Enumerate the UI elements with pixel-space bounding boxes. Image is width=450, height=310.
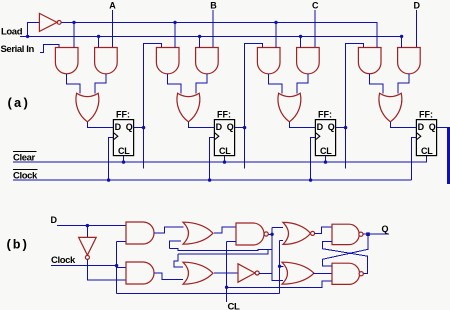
svg-text:FF:: FF: (116, 109, 130, 119)
inverter U3 bubble (255, 271, 259, 275)
node Load branch stage3 (299, 35, 302, 38)
wire or-out to D FF3 (289, 122, 315, 128)
wire G5 out stub (268, 233, 272, 235)
svg-text:Q: Q (328, 122, 335, 132)
node Clear branch stage2 (223, 160, 226, 163)
wire load-and out stage3 (297, 74, 308, 94)
and gate load stage4 (398, 48, 421, 74)
wire G3 out (214, 227, 236, 233)
wire Q feed stage4 (346, 43, 364, 168)
wire Serial In (40, 45, 59, 53)
clock triangle FF3 (316, 133, 320, 140)
node Q FF1 (142, 126, 145, 129)
wire G1 out (154, 227, 183, 233)
node D branch (86, 224, 89, 227)
wire Load to load-and stage1 (98, 36, 100, 47)
wire Load to load-and stage2 (199, 36, 201, 47)
wire G4 out (214, 272, 238, 274)
node Q FF3 (344, 126, 347, 129)
svg-text:D: D (414, 1, 421, 11)
node ClockB to G7 (278, 265, 281, 268)
flip-flop FF1 box (113, 120, 133, 156)
and gate load stage3 (297, 48, 320, 74)
svg-text:Q: Q (126, 122, 133, 132)
wire or-out to D FF1 (87, 122, 113, 128)
wire Q out b (363, 233, 389, 235)
wire Load to load-and stage3 (300, 36, 302, 47)
clock triangle FF1 (114, 133, 118, 140)
wire load-and out stage2 (196, 74, 207, 94)
svg-text:Q: Q (382, 224, 389, 234)
wire Q out FF2 (235, 127, 245, 129)
svg-text:FF:: FF: (318, 109, 332, 119)
svg-text:Serial In: Serial In (1, 44, 35, 55)
or gate stage4 (379, 93, 402, 122)
svg-text:Clock: Clock (51, 255, 76, 266)
wire Clear rail (13, 156, 427, 163)
and gate shift stage1 (55, 48, 78, 74)
svg-text:CL: CL (219, 146, 231, 156)
wire ClockB to G6 (280, 240, 283, 242)
svg-text:FF:: FF: (419, 109, 433, 119)
and gate load stage1 (95, 48, 118, 74)
wire D to inverter (86, 226, 88, 238)
inverter U2 bubble (85, 255, 89, 259)
or gate stage3 (278, 93, 301, 122)
wire Q feed stage2 (144, 43, 162, 168)
flip-flop FF2 box (214, 120, 234, 156)
nand gate G9 (332, 263, 360, 284)
and gate shift stage2 (156, 48, 179, 74)
wire Load-not to shift-and stage3 (275, 22, 277, 47)
node Q FF2 (243, 126, 246, 129)
nand gate G5 (236, 223, 264, 245)
svg-text:CL: CL (421, 146, 433, 156)
svg-text:Q: Q (227, 122, 234, 132)
wire master feedback S1 (169, 249, 272, 251)
nand G5 bubble (264, 232, 268, 236)
wire G7 out (313, 272, 332, 274)
and gate G1 (126, 222, 154, 244)
clock triangle FF2 (215, 133, 219, 140)
wire load-and out stage1 (95, 74, 106, 94)
wire or-out to D FF2 (188, 122, 214, 128)
wire D input (57, 225, 126, 227)
svg-text:D: D (51, 215, 58, 225)
svg-text:CL: CL (118, 146, 130, 156)
or gate G7 (282, 262, 314, 284)
node Load branch stage1 (97, 35, 100, 38)
nand G9 bubble (359, 272, 363, 276)
wire clear to FF1 (123, 156, 125, 163)
svg-text:B: B (210, 1, 217, 11)
wire shift-and out stage2 (168, 74, 182, 94)
wire clock to FF2 (210, 138, 215, 181)
svg-text:FF:: FF: (217, 109, 231, 119)
inverter U1 (Load) (39, 13, 57, 31)
and gate shift stage3 (257, 48, 280, 74)
wire U3 out (259, 273, 272, 275)
wire Clock input (51, 265, 117, 267)
nand gate G8 (332, 224, 359, 244)
node Load-inv junction (26, 35, 29, 38)
wire Clock lower run (117, 293, 280, 295)
node Clock branch b (115, 264, 118, 267)
wire data C drop (314, 10, 316, 48)
flip-flop FF4 box (416, 120, 436, 156)
node Clock branch stage1 (107, 178, 110, 181)
wire clock to FF1 (109, 138, 114, 181)
wire ClockB to G7 (280, 265, 284, 267)
inverter U1 bubble (57, 21, 61, 25)
svg-text:C: C (312, 1, 319, 11)
svg-text:D: D (115, 122, 122, 132)
wire master feedback S2 (178, 249, 268, 254)
wire Clock vertical b (116, 241, 118, 293)
nand G8 bubble (359, 232, 363, 236)
wire Load-not to shift-and stage1 (73, 22, 75, 47)
node Load-not branch stage2 (173, 21, 176, 24)
wire CL to G5 (227, 240, 236, 242)
overline Clock (13, 168, 37, 170)
wire Load-not rail (61, 22, 377, 47)
nor gate G6 (283, 222, 311, 244)
inverter U2 (D) (79, 237, 97, 255)
nor G6 bubble (311, 231, 315, 235)
wire clock to FF3 (311, 138, 316, 181)
svg-text:D: D (317, 122, 324, 132)
wire Load to load-and stage4 (401, 36, 403, 47)
wire G3 feedback in (169, 241, 181, 249)
wire Load-not to shift-and stage4 (376, 22, 378, 47)
wire master vertical node (271, 227, 273, 273)
inverter U3 (238, 264, 255, 282)
wire shift-and out stage3 (269, 74, 283, 94)
svg-text:CL: CL (320, 146, 332, 156)
wire Load rail (20, 36, 402, 47)
svg-text:A: A (109, 1, 116, 11)
wire Q out FF1 (134, 127, 144, 129)
overline Clear (13, 150, 37, 152)
svg-text:Load: Load (1, 27, 23, 38)
wire slave cross G9-to-G8 (322, 241, 367, 273)
or gate stage2 (177, 93, 200, 122)
and gate load stage2 (196, 48, 219, 74)
wire slave cross Q-to-G9 (322, 234, 368, 266)
wire Load-not to shift-and stage2 (174, 22, 176, 47)
svg-text:Q: Q (429, 122, 436, 132)
wire data A drop (111, 10, 113, 48)
clock triangle FF4 (417, 133, 421, 140)
node Clock branch stage3 (309, 178, 312, 181)
svg-text:(b): (b) (5, 238, 28, 253)
or gate stage1 (76, 93, 99, 122)
wire Clock rail (13, 179, 412, 181)
output bus bar (447, 127, 450, 184)
wire Q out FF3 (336, 127, 346, 129)
node Clear branch stage1 (122, 160, 125, 163)
node Q b (366, 232, 370, 236)
wire data B drop (212, 10, 214, 48)
and gate shift stage4 (358, 48, 381, 74)
node Clear branch stage3 (324, 160, 327, 163)
wire shift-and out stage1 (67, 74, 81, 94)
svg-text:D: D (216, 122, 223, 132)
node Load branch stage2 (198, 35, 201, 38)
or gate G4 (183, 262, 213, 284)
wire to G7 lower (272, 274, 283, 281)
wire clock to FF4 (412, 138, 417, 181)
wire load-and out stage4 (398, 74, 409, 94)
wire G2 out (154, 273, 183, 280)
node Load-not branch stage3 (274, 21, 277, 24)
wire clear to FF2 (224, 156, 226, 163)
wire Clock to G1 (117, 240, 126, 242)
wire Clock to G2 (117, 267, 126, 269)
wire G5-out to G6 (272, 226, 283, 228)
svg-text:(a): (a) (6, 96, 29, 111)
wire clear to FF3 (325, 156, 327, 163)
wire Load to inverter input (28, 22, 40, 36)
wire Q feed stage3 (245, 43, 263, 168)
and gate G2 (126, 262, 154, 284)
wire G6 out (315, 227, 332, 233)
wire D-not down (87, 259, 126, 280)
wire CL vertical (226, 241, 228, 302)
or gate G3 (183, 222, 213, 244)
wire ClockB vertical (279, 241, 281, 294)
wire G4 feedback in (174, 254, 183, 267)
node Load branch stage4 (400, 35, 403, 38)
node Load-not branch stage1 (72, 21, 75, 24)
svg-text:CL: CL (228, 302, 240, 310)
svg-text:D: D (418, 122, 425, 132)
wire Q out FF4 (437, 127, 447, 129)
node CL branch (225, 286, 228, 289)
wire or-out to D FF4 (390, 122, 416, 128)
wire data D drop (415, 10, 417, 48)
node G5 out (270, 233, 273, 236)
flip-flop FF3 box (315, 120, 335, 156)
wire shift-and out stage4 (370, 74, 384, 94)
wire CL to G9 (227, 281, 332, 287)
node Clock branch stage2 (208, 178, 211, 181)
